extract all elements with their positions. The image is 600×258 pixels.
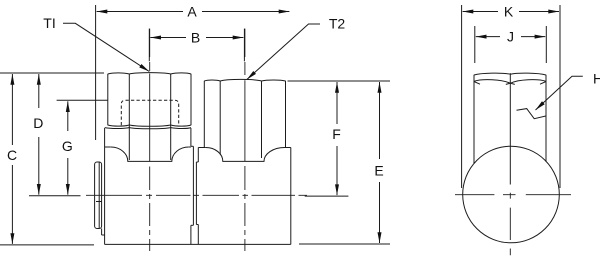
svg-text:H: H: [593, 70, 600, 86]
left port boss: [95, 162, 105, 235]
dimension A: [96, 4, 290, 141]
groove neck between halves: [191, 146, 198, 225]
body circle: [463, 146, 560, 243]
leader T2: [247, 16, 346, 80]
dimension F: [305, 82, 349, 196]
left nut hex T1: [108, 73, 191, 160]
leader T1: [43, 15, 149, 72]
right view hex corner line: [509, 73, 511, 184]
svg-text:B: B: [191, 30, 200, 46]
svg-text:D: D: [33, 115, 43, 131]
svg-text:T2: T2: [329, 16, 346, 32]
svg-text:TI: TI: [43, 15, 55, 31]
svg-text:G: G: [62, 138, 73, 154]
right hex boss T2: [204, 79, 285, 158]
svg-text:A: A: [187, 4, 197, 20]
hidden cavity (dashed): [121, 100, 178, 125]
right view vertical centerline: [509, 193, 511, 256]
leader H: [536, 70, 600, 110]
dimension J: [475, 26, 547, 63]
right view horizontal centerline: [455, 194, 571, 196]
svg-text:E: E: [374, 163, 383, 179]
horizontal centerline left view: [86, 194, 307, 196]
left body half: [105, 128, 191, 244]
dimension C: [0, 73, 104, 245]
svg-text:C: C: [7, 147, 17, 163]
dimension K: [462, 4, 560, 189]
svg-text:K: K: [504, 4, 514, 20]
right view nut front: [474, 73, 546, 163]
dimension B: [149, 29, 244, 62]
svg-text:J: J: [507, 29, 514, 45]
thread relief mark: [517, 109, 546, 119]
dimension D: [33, 74, 43, 195]
left nut collar: [105, 128, 191, 129]
dimension E: [288, 81, 391, 244]
body bottom edge: [105, 243, 291, 245]
centerline right nut: [244, 29, 246, 251]
svg-text:F: F: [332, 126, 341, 142]
dimension G: [29, 100, 108, 195]
centerline left nut: [149, 29, 151, 251]
right body half: [198, 148, 290, 245]
